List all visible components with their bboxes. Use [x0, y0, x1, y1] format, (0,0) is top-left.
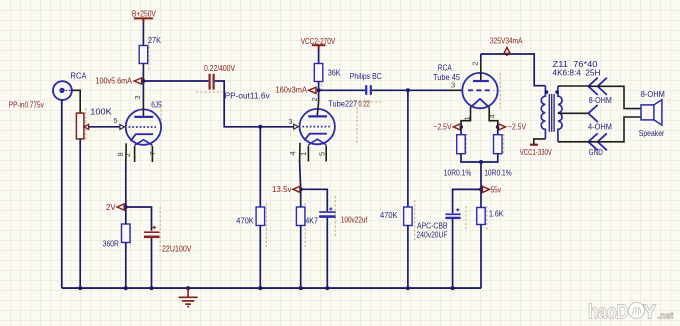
svg-text:Speaker: Speaker	[639, 129, 665, 138]
svg-text:2: 2	[470, 61, 479, 65]
wires 10R bottoms join	[461, 154, 498, 162]
resistor R 470K (first)	[256, 207, 265, 226]
V1 grid (dotted)	[129, 126, 156, 128]
resistor R 27K	[139, 46, 148, 64]
speaker cone	[654, 100, 662, 125]
node 2V (junction dot)	[124, 205, 128, 209]
wire V2 cathode to 13.5v node	[300, 162, 301, 190]
svg-text:470K: 470K	[236, 216, 254, 225]
speaker LS1 body	[641, 105, 654, 120]
V1 filament pin stubs 2,7	[135, 146, 153, 162]
capacitor C APC-CBB 240v20UF	[445, 208, 460, 218]
potentiometer wiper arrow	[84, 124, 89, 129]
connector 8-OHM chevrons	[588, 78, 607, 95]
wire node to R 470K	[259, 127, 261, 207]
svg-text:2V: 2V	[106, 203, 116, 212]
svg-text:27K: 27K	[148, 36, 162, 45]
wire plate node to Philips cap	[319, 89, 365, 91]
V3 filament pin 4 lead	[489, 107, 498, 127]
svg-text:10R0.1%: 10R0.1%	[484, 168, 512, 177]
wire 470K to rail	[407, 226, 409, 289]
svg-text:PP-out11.6v: PP-out11.6v	[225, 92, 270, 101]
svg-text:0.22: 0.22	[358, 100, 370, 109]
wire secondary bottom to GND tap	[558, 141, 588, 143]
svg-text:8-OHM: 8-OHM	[589, 96, 612, 105]
power symbol VCC2-270V bar	[312, 45, 326, 49]
svg-text:4-OHM: 4-OHM	[588, 123, 612, 132]
svg-text:2: 2	[123, 153, 132, 157]
annotation arrow ~2.5V left	[453, 124, 460, 130]
node plate of V1 (junction dot)	[141, 79, 145, 83]
svg-text:36K: 36K	[328, 68, 342, 77]
svg-text:1: 1	[463, 116, 472, 120]
node plate of V2 (junction dot)	[317, 88, 321, 92]
svg-text:22U100V: 22U100V	[162, 244, 192, 253]
svg-text:100v5.6mA: 100v5.6mA	[96, 76, 133, 85]
resistor R 360R	[122, 224, 131, 243]
node join (junction dot)	[479, 160, 483, 164]
svg-text:0.22/400V: 0.22/400V	[204, 64, 236, 73]
wire 27K to plate node	[142, 64, 144, 82]
wire B+ to R 27K	[142, 23, 144, 46]
power symbol VCC1-330V bar	[530, 144, 538, 146]
svg-text:4: 4	[488, 114, 497, 118]
V2 filament	[308, 139, 326, 145]
V2 plate pin 2 lead	[318, 90, 320, 102]
wire left node to R 10R	[460, 127, 462, 135]
wire join to 55v node	[480, 162, 482, 189]
watermark haoDIY.net	[588, 302, 674, 324]
annotation arrow 160v3mA	[309, 87, 316, 93]
svg-text:4K7: 4K7	[305, 216, 318, 225]
wire GND to speaker	[588, 117, 641, 142]
svg-text:3: 3	[451, 80, 455, 89]
wire primary bottom to VCC1	[534, 139, 546, 144]
wire secondary centre tap 4-OHM	[558, 112, 588, 114]
V1 filament	[135, 140, 153, 146]
svg-text:100K: 100K	[90, 107, 112, 116]
node ~2.5V right (junction dot)	[496, 125, 500, 129]
V1 plate bar	[134, 116, 153, 118]
potentiometer RP 100K body	[76, 113, 84, 139]
resistor R 10R 0.1% left	[457, 135, 466, 154]
wire V3 plate to transformer	[481, 54, 546, 86]
wire cap to V2 grid line	[215, 81, 294, 127]
resistor R 470K (second)	[404, 207, 413, 226]
node grid wire V3 / 470K (junction dot)	[406, 88, 410, 92]
node 13.5v (junction dot)	[299, 187, 303, 191]
node grid wire / 470K junction	[258, 125, 262, 129]
svg-text:Tube 45: Tube 45	[433, 73, 461, 82]
svg-text:7: 7	[148, 151, 157, 155]
resistor R 36K	[314, 64, 323, 82]
svg-text:5: 5	[318, 152, 327, 156]
svg-text:Tube227: Tube227	[328, 100, 357, 109]
annotation arrow 55v	[482, 186, 489, 192]
svg-text:360R: 360R	[103, 239, 119, 248]
connector GND chevrons	[588, 133, 607, 150]
svg-text:240v20UF: 240v20UF	[417, 231, 448, 240]
svg-text:.net: .net	[658, 311, 674, 321]
svg-text:325V34mA: 325V34mA	[490, 36, 523, 45]
resistor R 1.6K	[477, 208, 486, 225]
wire VCC2 to R 36K	[318, 49, 320, 64]
annotation arrow ~2.5V right	[499, 124, 506, 130]
svg-text:4K6:8:4 25H: 4K6:8:4 25H	[553, 68, 601, 77]
capacitor C Philips BC 0.22	[366, 85, 371, 95]
resistor R 4K7	[296, 207, 305, 226]
node 55v (junction dot)	[479, 187, 483, 191]
wire 360R to rail	[125, 243, 127, 289]
svg-text:Y: Y	[643, 302, 657, 324]
wire 100v22uf to rail	[326, 218, 328, 288]
svg-text:4: 4	[288, 151, 297, 155]
annotation arrow 13.5v	[293, 186, 300, 192]
ground rail wire	[62, 287, 481, 289]
svg-text:5: 5	[113, 116, 117, 125]
wire 22U cap to rail	[151, 238, 153, 288]
wire node to V3 grid	[408, 89, 448, 91]
svg-text:1.6K: 1.6K	[489, 210, 504, 219]
transformer core	[549, 94, 554, 132]
wire secondary top to 8-OHM tap	[558, 85, 588, 87]
wire 36K to plate node V2	[318, 82, 320, 91]
svg-text:APC-CBB: APC-CBB	[417, 222, 448, 231]
svg-text:haoD: haoD	[588, 302, 628, 324]
svg-text:VCC2-270V: VCC2-270V	[301, 37, 336, 46]
V1 cathode	[130, 134, 153, 141]
V2 grid pin 3 arrow	[294, 124, 299, 129]
V1 plate pin 3 lead	[142, 81, 144, 102]
svg-text:RCA: RCA	[438, 64, 453, 73]
V1 cathode pin 8 lead	[125, 143, 127, 162]
transformer T1 primary winding	[541, 86, 545, 139]
svg-text:VCC1-330V: VCC1-330V	[520, 148, 553, 157]
wire 2V node to bypass cap	[125, 207, 152, 231]
V2 cathode pin 4 lead	[299, 143, 301, 162]
svg-text:B+250V: B+250V	[132, 9, 157, 18]
annotation arrow 325V34mA	[504, 47, 510, 53]
wire 55v node to APC cap	[453, 189, 481, 213]
wire V1 cathode to 2V node	[125, 162, 127, 207]
wire 1.6K to rail end	[480, 225, 482, 289]
wire pot bottom to rail	[79, 139, 81, 288]
svg-text:13.5v: 13.5v	[272, 185, 292, 194]
wire plate node to coupling cap	[143, 80, 208, 82]
wire 470K to ground rail	[259, 226, 261, 289]
wire node to R 470K second	[407, 90, 409, 207]
svg-text:1: 1	[299, 152, 308, 156]
V2 filament pin stubs 1,5	[308, 146, 326, 162]
wire RCA shell to rail	[61, 100, 63, 288]
wire APC cap to rail	[452, 219, 454, 288]
connector 4-OHM chevron	[588, 105, 597, 122]
annotation arrow 100v5.6mA	[134, 78, 141, 84]
svg-text:8-OHM: 8-OHM	[641, 90, 665, 99]
designator tan dashed marks	[86, 38, 504, 251]
wire 55v node to 1.6K	[480, 189, 482, 207]
RCA input jack J1	[53, 81, 72, 100]
wire RCA pin to pot top	[72, 90, 80, 113]
capacitor C 100v22uf	[319, 207, 335, 216]
wire 8-OHM to speaker	[588, 86, 641, 108]
svg-text:RCA: RCA	[71, 72, 88, 81]
wire 4K7 to rail	[300, 226, 302, 289]
V2 grid (dotted)	[302, 126, 329, 128]
svg-text:Philips BC: Philips BC	[350, 72, 382, 81]
V1 grid pin 5 arrow	[120, 124, 125, 129]
V3 plate bar	[473, 80, 489, 82]
V3 plate pin 2 lead	[480, 54, 482, 62]
V2 cathode	[304, 134, 327, 141]
capacitor C 22U100V electrolytic	[144, 226, 160, 237]
svg-text:160v3mA: 160v3mA	[276, 86, 308, 95]
resistor R 10R 0.1% right	[494, 135, 503, 154]
svg-text:3: 3	[288, 117, 292, 126]
V2 plate bar	[308, 115, 327, 117]
svg-text:2: 2	[310, 97, 319, 101]
annotation arrow 2V	[117, 204, 124, 210]
svg-text:100v22uf: 100v22uf	[341, 216, 368, 225]
svg-text:470K: 470K	[380, 211, 398, 220]
node 325V34mA (junction dot)	[505, 52, 509, 56]
transformer polarity dots	[545, 90, 549, 94]
wire wiper to V1 grid	[89, 126, 120, 128]
node ~2.5V left (junction dot)	[459, 125, 463, 129]
svg-text:6J5: 6J5	[151, 101, 162, 110]
triode V1 6J5 envelope	[126, 109, 161, 144]
wire 13.5v node to 100v22uf cap	[300, 189, 327, 211]
svg-text:~2.5V: ~2.5V	[508, 123, 527, 132]
wire Philips cap to grid node	[372, 89, 408, 91]
triode V2 Tube227 envelope	[300, 109, 335, 144]
V3 grid (dashed)	[468, 89, 494, 91]
transformer T1 secondary winding	[558, 86, 562, 142]
V3 filament	[471, 99, 490, 107]
svg-text:55v: 55v	[491, 185, 502, 194]
svg-text:PP-in0.775v: PP-in0.775v	[9, 100, 44, 109]
watermark hand glyph	[629, 303, 645, 319]
rail junction dots	[78, 286, 454, 290]
wire node to 4K7	[300, 189, 302, 207]
svg-text:3: 3	[133, 95, 142, 99]
ground symbol	[179, 288, 198, 307]
triode V3 RCA Tube 45 envelope	[462, 73, 497, 108]
capacitor 0.22/400V	[210, 74, 214, 90]
V3 filament pin 1 lead	[461, 107, 471, 127]
wire 2V node to 360R	[125, 207, 127, 224]
svg-text:GND: GND	[589, 148, 603, 157]
svg-text:~2.5V: ~2.5V	[434, 123, 453, 132]
wire right node to R 10R	[497, 127, 499, 135]
power symbol B+250V bar	[134, 18, 153, 22]
svg-text:10R0.1%: 10R0.1%	[444, 168, 472, 177]
